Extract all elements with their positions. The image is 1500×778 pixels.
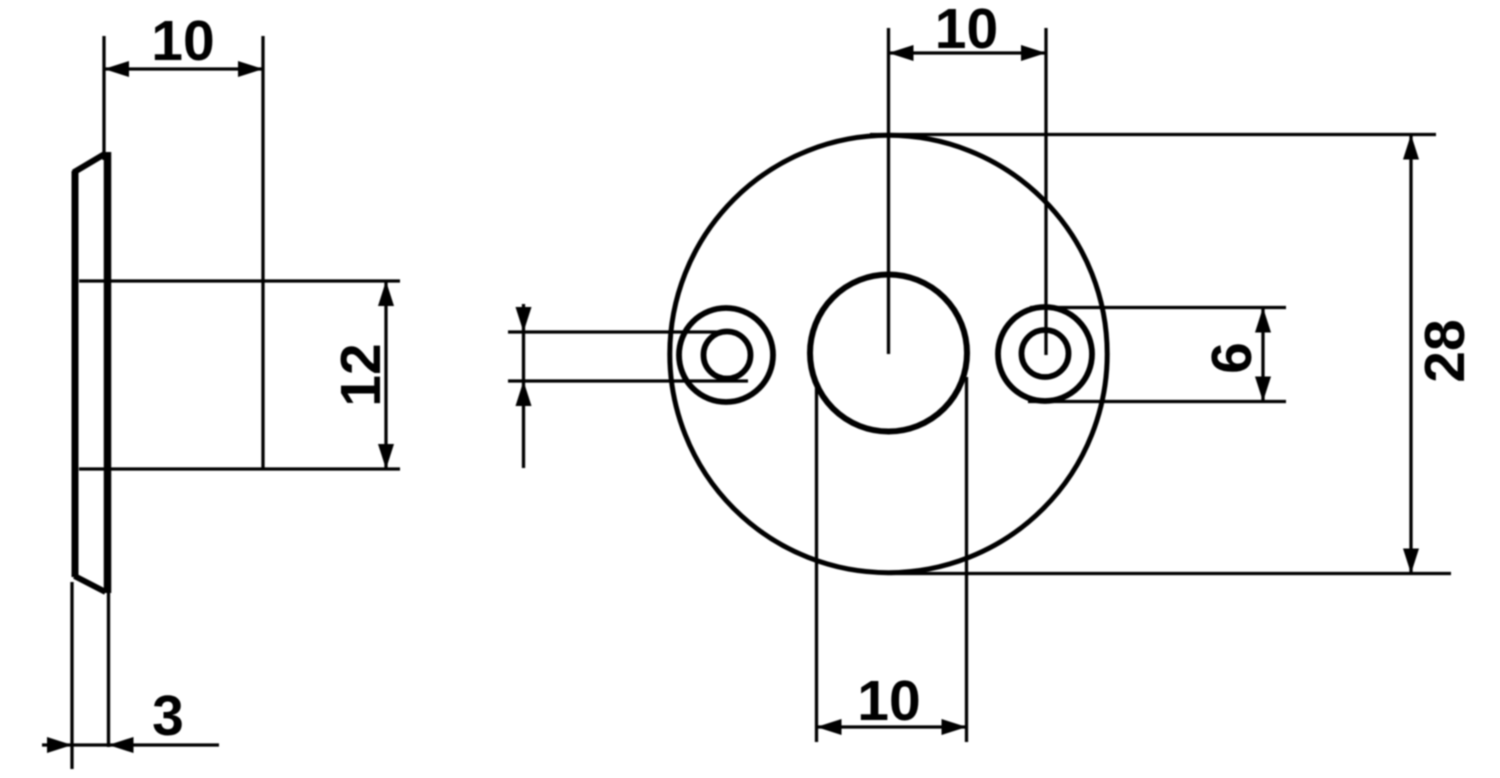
dim 10 (top) dimension line — [889, 51, 1047, 54]
front view: left hole inner circle — [704, 332, 751, 379]
dim 12 top arrowhead — [378, 281, 394, 306]
dim 10 (bottom) right arrowhead — [942, 719, 967, 735]
svg-text:6: 6 — [1200, 342, 1264, 374]
dim 3 right arrowhead — [109, 737, 134, 753]
dim 10 (bottom) left arrowhead — [817, 719, 842, 735]
dim 10 (side view) right extension line — [261, 36, 264, 469]
side view: plate left edge — [72, 171, 79, 577]
front view: center bore circle — [810, 275, 967, 432]
svg-text:3: 3 — [152, 684, 184, 748]
dim 3 left extension line — [70, 582, 73, 769]
side view: top chamfer edge — [74, 154, 106, 173]
front view: left hole counterbore circle — [679, 308, 773, 402]
dim 3 left arrowhead — [47, 737, 72, 753]
dim 10 (bottom) dimension line — [817, 725, 967, 728]
dim 28 top arrowhead — [1403, 135, 1419, 160]
dim 6 upper extension line — [1030, 306, 1286, 309]
dim 6 top arrowhead — [1255, 308, 1271, 333]
dim 6 dimension line — [1261, 308, 1264, 402]
dim 28 bottom arrowhead — [1403, 549, 1419, 574]
dim 28 dimension line — [1409, 135, 1412, 574]
hole bore dim upper arrowhead — [516, 307, 532, 332]
dim 3 right extension line — [107, 593, 110, 747]
dim 10 (side view) left extension line — [102, 36, 105, 160]
side view: plate right edge — [104, 152, 112, 593]
side view: bottom chamfer edge — [75, 576, 106, 592]
front view: right hole inner circle — [1022, 330, 1069, 377]
dim 10 (top) right arrowhead — [1021, 45, 1046, 61]
hole bore dim upper extension line — [508, 330, 734, 333]
front view: right hole counterbore circle — [998, 307, 1092, 401]
svg-text:10: 10 — [935, 0, 998, 61]
dim 10 (bottom) right extension line — [965, 377, 968, 742]
dim 10 (side view) dimension line — [104, 67, 263, 70]
dim 10 (top) left extension line to plate center — [887, 28, 890, 354]
dim 12 lower extension line — [79, 467, 400, 470]
svg-text:12: 12 — [329, 343, 393, 406]
dim 3 dimension line — [42, 743, 219, 746]
hole bore dim lower extension line — [508, 379, 748, 382]
svg-text:28: 28 — [1413, 319, 1477, 382]
dim 6 bottom arrowhead — [1255, 377, 1271, 402]
dim 10 (top) right extension line to right hole center — [1044, 28, 1047, 355]
svg-text:10: 10 — [151, 9, 214, 73]
dim 10 (bottom) left extension line — [815, 388, 818, 742]
dim 28 lower extension line — [890, 572, 1451, 575]
dim 28 upper extension line — [870, 133, 1436, 136]
hole bore dim lower arrowhead — [516, 381, 532, 406]
dim 10 (side view) left arrowhead — [104, 61, 129, 77]
dim 6 lower extension line — [1028, 400, 1286, 403]
dim 12 bottom arrowhead — [378, 444, 394, 469]
front view: plate outline circle — [670, 135, 1107, 572]
dim 10 (side view) right arrowhead — [238, 61, 263, 77]
dim 12 upper extension line — [79, 279, 400, 282]
hole bore dim dimension line — [522, 304, 525, 468]
svg-text:10: 10 — [857, 669, 920, 733]
dim 10 (top) left arrowhead — [889, 45, 914, 61]
dim 12 dimension line — [384, 281, 387, 469]
